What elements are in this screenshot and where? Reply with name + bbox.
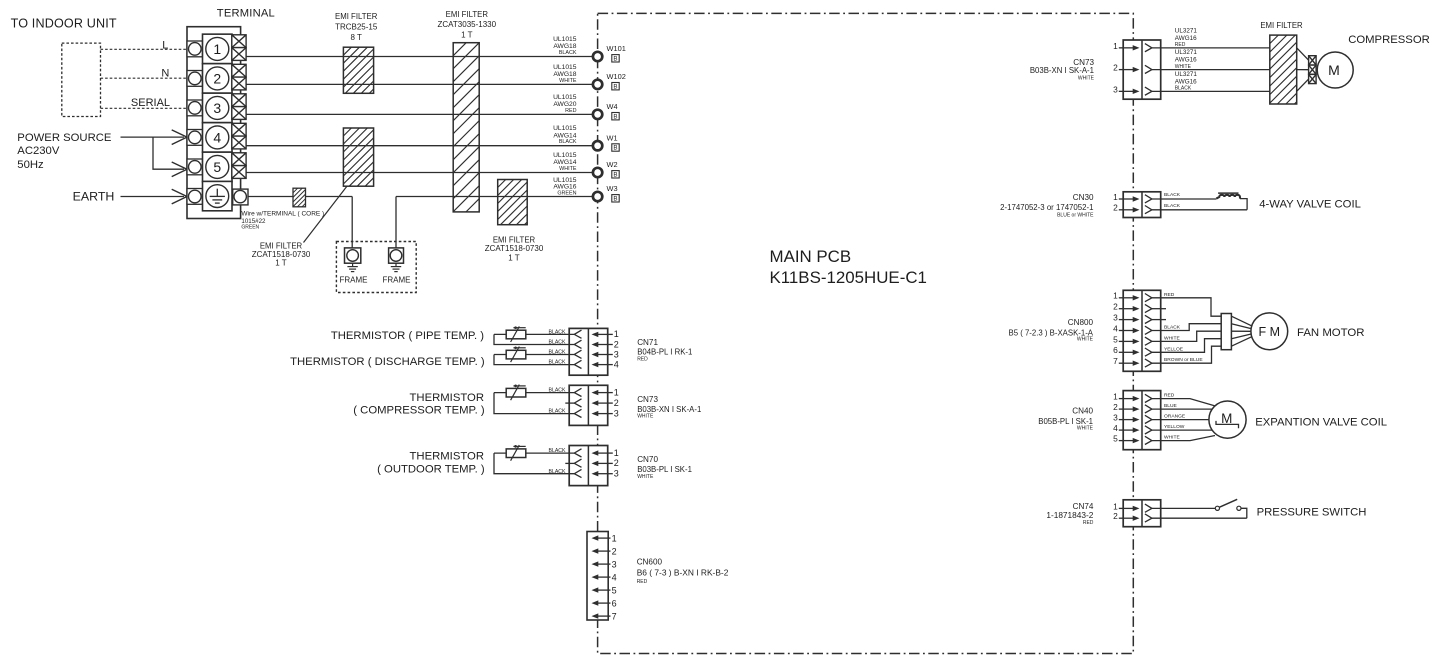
svg-text:3: 3: [614, 408, 619, 418]
wire: CN40 pin 3 to expansion valve (ORANGE): [1152, 414, 1209, 420]
svg-text:UL1015: UL1015: [553, 152, 577, 159]
svg-text:2-1747052-3 or 1747052-1: 2-1747052-3 or 1747052-1: [1000, 203, 1093, 212]
CN800 pin 6: [1113, 345, 1152, 356]
wire: CN40 pin 2 to expansion valve (BLUE): [1152, 403, 1212, 409]
svg-text:W4: W4: [607, 102, 618, 111]
svg-text:ZCAT1518-0730: ZCAT1518-0730: [252, 250, 311, 259]
svg-text:CN73: CN73: [637, 395, 658, 404]
EMI filter ZCAT1518-0730 on earth wire: [498, 180, 528, 225]
svg-text:B: B: [613, 113, 617, 120]
label: CN71 B04B-PL I RK-1 RED: [637, 338, 692, 363]
4-way valve coil L1: [1216, 193, 1240, 199]
CN600 pin 1: [592, 533, 617, 543]
wire: earth lead: [121, 189, 188, 204]
svg-text:B03B-XN I SK-A-1: B03B-XN I SK-A-1: [1030, 66, 1094, 75]
CN73 (thermistor) pin 3: [574, 408, 619, 418]
svg-text:EARTH: EARTH: [73, 189, 115, 203]
fasten terminal W102: [593, 72, 626, 90]
svg-text:FRAME: FRAME: [340, 275, 368, 284]
CN800 pin 4: [1113, 323, 1152, 334]
CN71 pin 4: [574, 359, 619, 369]
svg-text:RED: RED: [1164, 292, 1175, 298]
svg-text:4: 4: [1113, 423, 1118, 433]
svg-text:1-1871843-2: 1-1871843-2: [1046, 510, 1093, 520]
CN600 pin 6: [592, 598, 617, 608]
label: EMI FILTER ZCAT1518-0730 1 T (right): [485, 236, 544, 263]
svg-text:1: 1: [1113, 192, 1118, 202]
svg-text:2: 2: [213, 70, 221, 86]
terminal 3 screw (left): [187, 100, 203, 116]
terminal 1 screw (left): [187, 41, 203, 57]
svg-text:WHITE: WHITE: [1175, 64, 1192, 70]
svg-text:CN800: CN800: [1068, 318, 1094, 327]
terminal 3: [203, 93, 233, 123]
svg-text:2: 2: [1113, 511, 1118, 521]
svg-text:7: 7: [1113, 356, 1118, 366]
svg-text:( COMPRESSOR TEMP. ): ( COMPRESSOR TEMP. ): [353, 405, 485, 417]
wire: terminal 1 to W101: [246, 56, 592, 58]
label: CN30 2-1747052-3 or 1747052-1 BLUE or WHITE: [1000, 193, 1094, 219]
svg-text:AC230V: AC230V: [17, 145, 60, 157]
connector CN73 (thermistor) body: [569, 385, 608, 425]
svg-text:POWER SOURCE: POWER SOURCE: [17, 132, 112, 144]
CN800 pin 3: [1113, 313, 1166, 324]
svg-text:50Hz: 50Hz: [17, 159, 44, 171]
svg-text:4: 4: [213, 129, 221, 145]
svg-text:WHITE: WHITE: [1077, 336, 1094, 342]
EMI filter TRCB25-15 (lower block): [343, 128, 373, 186]
svg-text:2: 2: [1113, 402, 1118, 412]
svg-text:W101: W101: [607, 44, 626, 53]
svg-text:3: 3: [1113, 413, 1118, 423]
svg-text:TRCB25-15: TRCB25-15: [335, 22, 378, 31]
label: FRAME 1: [340, 275, 368, 284]
svg-text:THERMISTOR ( DISCHARGE TEMP. ): THERMISTOR ( DISCHARGE TEMP. ): [290, 356, 485, 368]
label: COMPRESSOR: [1348, 34, 1430, 46]
label: PRESSURE SWITCH: [1257, 506, 1367, 518]
CN74 pin 1: [1113, 501, 1152, 512]
svg-text:3: 3: [1113, 313, 1118, 323]
svg-text:1: 1: [614, 387, 619, 397]
svg-text:5: 5: [1113, 434, 1118, 444]
svg-text:RED: RED: [565, 108, 576, 114]
thermistor (pipe temp.) with wiring to CN71 pins 1-2: [494, 326, 574, 345]
svg-text:Wire w/TERMINAL ( CORE ): Wire w/TERMINAL ( CORE ): [241, 211, 324, 218]
fasten terminal W4: [593, 102, 619, 120]
svg-text:1 T: 1 T: [508, 253, 520, 262]
svg-text:4: 4: [614, 359, 619, 369]
svg-text:BLACK: BLACK: [559, 50, 577, 56]
CN73 (compressor) pin 2: [1113, 63, 1152, 74]
wire: power source to terminal 5: [153, 137, 187, 177]
svg-text:1: 1: [1113, 41, 1118, 51]
wire: CN74 pin 1 to pressure switch: [1152, 507, 1215, 509]
EMI filter TRCB25-15 (upper block): [343, 47, 373, 93]
svg-text:1: 1: [1113, 392, 1118, 402]
CN40 pin 1: [1113, 392, 1152, 403]
svg-text:1 T: 1 T: [275, 259, 287, 268]
svg-text:ZCAT3035-1330: ZCAT3035-1330: [438, 20, 497, 29]
label: THERMISTOR ( OUTDOOR TEMP. ): [377, 451, 485, 476]
label: CN73 B03B-XN I SK-A-1 WHITE: [637, 395, 701, 420]
fasten terminal W2: [593, 160, 619, 178]
wire: terminal 2 to W102: [246, 83, 592, 85]
wire N (dashed) with label: [101, 68, 188, 80]
svg-text:UL3271: UL3271: [1175, 49, 1198, 56]
frame ground enclosure (dashed box): [336, 242, 416, 293]
svg-text:3: 3: [1113, 84, 1118, 94]
label: UL1015 AWG20 RED: [553, 94, 577, 114]
terminal block outline: [187, 27, 241, 219]
svg-text:CN600: CN600: [637, 557, 663, 566]
svg-text:BLACK: BLACK: [548, 448, 566, 454]
thermistor (discharge temp.) with wiring to CN71 pins 3-4: [494, 347, 574, 366]
svg-text:BLACK: BLACK: [548, 360, 566, 366]
svg-text:1 T: 1 T: [461, 31, 473, 40]
svg-text:TERMINAL: TERMINAL: [217, 7, 275, 19]
label: FRAME 2: [383, 275, 411, 284]
svg-text:EMI FILTER: EMI FILTER: [446, 10, 489, 19]
connector CN70 body: [569, 446, 608, 486]
svg-text:RED: RED: [1083, 520, 1094, 526]
wires: EMI filter to compressor cores: [1297, 48, 1309, 92]
CN71 pin 1: [574, 329, 619, 339]
svg-text:WHITE: WHITE: [559, 166, 577, 172]
fasten terminal W101: [593, 44, 626, 62]
wire: frame ground to W3: [396, 197, 592, 248]
svg-text:UL1015: UL1015: [553, 125, 577, 132]
svg-text:FRAME: FRAME: [383, 275, 411, 284]
svg-text:CN40: CN40: [1072, 407, 1093, 416]
svg-text:BLACK: BLACK: [548, 409, 566, 415]
label: FAN MOTOR: [1297, 327, 1365, 339]
terminal 2 screw (left): [187, 71, 203, 87]
svg-text:UL1015: UL1015: [553, 94, 577, 101]
svg-text:UL1015: UL1015: [553, 36, 577, 43]
terminal 2: [203, 64, 233, 94]
svg-text:WHITE: WHITE: [1164, 435, 1180, 441]
ferrite cores on terminal 1: [232, 35, 246, 61]
label: EMI FILTER TRCB25-15 8 T: [335, 12, 378, 42]
svg-text:YELLOE: YELLOE: [1164, 346, 1184, 352]
svg-text:B6 ( 7-3 ) B-XN I RK-B-2: B6 ( 7-3 ) B-XN I RK-B-2: [637, 568, 729, 578]
svg-text:BLUE or WHITE: BLUE or WHITE: [1057, 212, 1094, 218]
svg-text:AWG16: AWG16: [1175, 35, 1197, 42]
svg-text:3: 3: [612, 559, 617, 569]
label: EMI FILTER ZCAT1518-0730 1 T (left, with leader): [252, 186, 347, 268]
label: TO INDOOR UNIT: [11, 17, 117, 31]
CN73 (thermistor) pin 2: [565, 398, 619, 408]
wire: CN800 pin 4 to fan motor (BLACK): [1152, 324, 1221, 331]
EMI filter ZCAT3035-1330 (tall block): [453, 43, 479, 212]
wire L (dashed) with label: [101, 39, 188, 51]
earth terminal: [203, 181, 233, 210]
wire: CN40 pin 4 to expansion valve (YELLOW): [1152, 424, 1212, 430]
svg-text:1: 1: [614, 448, 619, 458]
label: 4-WAY VALVE COIL: [1259, 198, 1361, 210]
compressor motor M1: [1317, 52, 1353, 88]
wire: 4-way valve coil return to CN30 pin 2 (BLACK): [1152, 199, 1247, 210]
CN600 pin 5: [592, 585, 617, 595]
terminal 5 screw (left): [187, 159, 203, 175]
label: EMI FILTER ZCAT3035-1330 1 T: [438, 10, 497, 40]
svg-text:ORANGE: ORANGE: [1164, 414, 1186, 420]
svg-text:CN70: CN70: [637, 455, 658, 464]
CN600 pin 3: [592, 559, 617, 569]
svg-text:3: 3: [213, 100, 221, 116]
CN800 pin 1: [1113, 291, 1152, 302]
svg-text:F M: F M: [1259, 325, 1281, 339]
ferrite cores on terminal 2: [232, 64, 246, 90]
svg-text:5: 5: [1113, 334, 1118, 344]
CN600 pin 4: [592, 572, 617, 582]
wire: CN30 pin 1 to 4-way valve coil (BLACK): [1152, 192, 1216, 199]
svg-text:EMI FILTER: EMI FILTER: [493, 236, 536, 245]
label: EARTH: [73, 189, 115, 203]
wire: CN800 pin 6 to fan motor (YELLOE): [1152, 339, 1221, 353]
terminal 5: [203, 152, 233, 182]
svg-text:EMI FILTER: EMI FILTER: [335, 12, 378, 21]
svg-text:B03B-PL I SK-1: B03B-PL I SK-1: [637, 465, 692, 474]
wire: CN800 pin 1 to fan motor (RED): [1152, 292, 1221, 316]
CN30 pin 1: [1113, 192, 1152, 203]
svg-text:EXPANTION VALVE COIL: EXPANTION VALVE COIL: [1255, 416, 1387, 428]
fan motor lead bundle: [1221, 314, 1231, 350]
svg-text:4-WAY VALVE COIL: 4-WAY VALVE COIL: [1259, 198, 1361, 210]
svg-text:B04B-PL I RK-1: B04B-PL I RK-1: [637, 347, 692, 356]
CN71 pin 3: [574, 349, 619, 359]
svg-text:BLACK: BLACK: [548, 469, 566, 475]
svg-text:L: L: [162, 39, 168, 51]
label: TERMINAL: [217, 7, 275, 19]
svg-text:BLACK: BLACK: [1164, 192, 1181, 198]
svg-text:BLACK: BLACK: [559, 139, 577, 145]
svg-text:ZCAT1518-0730: ZCAT1518-0730: [485, 244, 544, 253]
svg-text:W2: W2: [607, 160, 618, 169]
wire: terminal 4 to W1: [246, 145, 592, 147]
CN800 pin 2: [1113, 302, 1166, 313]
CN70 pin 3: [574, 469, 619, 479]
svg-text:WHITE: WHITE: [1077, 426, 1094, 432]
svg-text:2: 2: [614, 398, 619, 408]
svg-text:WHITE: WHITE: [559, 78, 577, 84]
svg-text:( OUTDOOR TEMP. ): ( OUTDOOR TEMP. ): [377, 464, 485, 476]
CN40 pin 2: [1113, 402, 1152, 413]
indoor unit connection (dashed box): [62, 43, 101, 116]
wire: power source to terminal 4: [121, 130, 188, 145]
svg-text:W102: W102: [607, 72, 626, 81]
CN73 (compressor) pin 1: [1113, 41, 1152, 52]
CN40 pin 4: [1113, 423, 1152, 434]
svg-text:B: B: [613, 195, 617, 202]
svg-text:5: 5: [213, 159, 221, 175]
CN600 pin 7: [592, 611, 617, 621]
svg-text:RED: RED: [637, 579, 648, 585]
label: CN74 1-1871843-2 RED: [1046, 502, 1094, 526]
label: UL1015 AWG14 BLACK: [553, 125, 577, 145]
svg-text:TO INDOOR UNIT: TO INDOOR UNIT: [11, 17, 117, 31]
svg-text:W3: W3: [607, 184, 618, 193]
wires: bundle to fan motor: [1231, 316, 1252, 346]
label: EMI FILTER (compressor): [1260, 21, 1303, 30]
svg-text:MAIN PCB: MAIN PCB: [770, 247, 852, 266]
terminal 1: [203, 34, 233, 64]
svg-text:WHITE: WHITE: [1164, 335, 1180, 341]
CN73 (thermistor) pin 1: [574, 387, 619, 397]
svg-text:YELLOW: YELLOW: [1164, 424, 1185, 430]
label: UL1015 AWG14 WHITE: [553, 152, 577, 172]
thermistor (compressor temp.) with wiring to CN73 pins 1,3: [494, 385, 574, 415]
fasten terminal W3: [593, 184, 619, 202]
svg-text:4: 4: [1113, 323, 1118, 333]
CN30 pin 2: [1113, 203, 1152, 214]
svg-text:M: M: [1221, 411, 1232, 426]
wire: terminal 5 to W2: [246, 172, 592, 174]
svg-text:BLACK: BLACK: [548, 330, 566, 336]
wire: earth terminal to frame ground: [248, 197, 352, 248]
svg-text:BLACK: BLACK: [1164, 203, 1181, 209]
svg-text:3: 3: [614, 469, 619, 479]
svg-text:1: 1: [213, 41, 221, 57]
wire: pressure switch return to CN74 pin 2: [1152, 508, 1247, 518]
svg-text:THERMISTOR: THERMISTOR: [410, 392, 484, 404]
svg-text:WHITE: WHITE: [637, 414, 654, 420]
svg-text:GREEN: GREEN: [557, 190, 576, 196]
svg-text:GREEN: GREEN: [241, 225, 259, 231]
svg-text:EMI FILTER: EMI FILTER: [1260, 21, 1303, 30]
ferrite cores at compressor: [1309, 56, 1317, 84]
svg-text:CN71: CN71: [637, 338, 658, 347]
svg-text:2: 2: [614, 339, 619, 349]
fasten terminal W1: [593, 133, 619, 151]
frame ground 1: [345, 248, 361, 272]
CN70 pin 2: [565, 458, 619, 468]
svg-text:6: 6: [1113, 345, 1118, 355]
svg-text:1: 1: [614, 329, 619, 339]
svg-text:B: B: [613, 55, 617, 62]
CN74 pin 2: [1113, 511, 1152, 522]
svg-text:N: N: [161, 68, 169, 80]
svg-text:5: 5: [612, 585, 617, 595]
wire: CN800 pin 5 to fan motor (WHITE): [1152, 331, 1221, 341]
earth terminal lug (right): [233, 189, 248, 205]
label: Wire w/TERMINAL ( CORE ) 1015#22 GREEN: [241, 211, 324, 231]
wire SERIAL (dashed) with label: [101, 97, 188, 109]
terminal 4: [203, 123, 233, 152]
svg-text:RED: RED: [1164, 393, 1175, 399]
label: EXPANTION VALVE COIL: [1255, 416, 1387, 428]
CN73 (compressor) pin 3: [1113, 84, 1152, 95]
svg-text:CN30: CN30: [1073, 193, 1094, 202]
svg-text:B: B: [613, 83, 617, 90]
svg-text:BLACK: BLACK: [548, 388, 566, 394]
label: THERMISTOR ( PIPE TEMP. ): [331, 330, 484, 342]
fan motor FM: [1251, 313, 1288, 350]
svg-text:PRESSURE SWITCH: PRESSURE SWITCH: [1257, 506, 1367, 518]
CN71 pin 2: [574, 339, 619, 349]
svg-text:3: 3: [614, 349, 619, 359]
svg-text:WHITE: WHITE: [637, 474, 654, 480]
svg-text:7: 7: [612, 611, 617, 621]
svg-text:W1: W1: [607, 133, 618, 142]
connector CN74 body: [1123, 500, 1161, 527]
connector CN30 body: [1123, 192, 1161, 218]
svg-text:UL3271: UL3271: [1175, 71, 1198, 78]
svg-text:THERMISTOR ( PIPE TEMP. ): THERMISTOR ( PIPE TEMP. ): [331, 330, 484, 342]
svg-text:1: 1: [1113, 501, 1118, 511]
EMI filter (compressor): [1270, 35, 1297, 104]
svg-text:RED: RED: [1175, 42, 1186, 48]
connector CN71 body: [569, 328, 608, 375]
terminal 4 screw (left): [187, 130, 203, 146]
svg-text:2: 2: [614, 458, 619, 468]
svg-text:BLUE: BLUE: [1164, 403, 1178, 409]
wire: terminal 3 to W4: [246, 113, 592, 115]
svg-text:FAN MOTOR: FAN MOTOR: [1297, 327, 1365, 339]
CN800 pin 7: [1113, 356, 1152, 367]
wire: CN800 pin 7 to fan motor (BROWN or BLUE): [1152, 346, 1221, 363]
svg-text:RED: RED: [637, 356, 648, 362]
wire: CN73 to compressor EMI filter (BLACK): [1152, 71, 1270, 92]
CN70 pin 1: [574, 448, 619, 458]
MAIN PCB board outline (dash-dot): [598, 13, 1134, 653]
svg-text:4: 4: [612, 572, 617, 582]
connector CN73 (compressor) body: [1123, 40, 1161, 99]
ferrite cores on terminal 3: [232, 94, 246, 120]
label: THERMISTOR ( DISCHARGE TEMP. ): [290, 356, 485, 368]
wire: CN40 pin 1 to expansion valve (RED): [1152, 393, 1215, 406]
wire: CN73 to compressor EMI filter (RED): [1152, 27, 1270, 48]
svg-text:AWG16: AWG16: [1175, 57, 1197, 64]
connector CN800 body: [1123, 290, 1161, 371]
svg-text:AWG16: AWG16: [1175, 78, 1197, 85]
CN600 pin 2: [592, 546, 617, 556]
svg-text:BROWN or BLUE: BROWN or BLUE: [1164, 357, 1203, 363]
thermistor (outdoor temp.) with wiring to CN70 pins 1,3: [494, 445, 574, 475]
svg-text:BLACK: BLACK: [548, 350, 566, 356]
label: MAIN PCB K11BS-1205HUE-C1: [770, 247, 927, 287]
svg-text:UL3271: UL3271: [1175, 27, 1198, 34]
svg-text:B: B: [613, 145, 617, 152]
svg-text:BLACK: BLACK: [548, 340, 566, 346]
wire: CN40 pin 5 to expansion valve (WHITE): [1152, 435, 1215, 441]
label: UL1015 AWG18 BLACK: [553, 36, 577, 56]
label: CN800 B5 ( 7-2.3 ) B-XASK-1-A WHITE: [1009, 318, 1094, 342]
svg-text:SERIAL: SERIAL: [131, 97, 170, 109]
label: UL1015 AWG18 WHITE: [553, 64, 577, 84]
svg-text:BLACK: BLACK: [1164, 325, 1181, 331]
expansion valve coil motor: [1209, 401, 1246, 438]
ferrite cores on terminal 4: [232, 123, 246, 149]
label: THERMISTOR ( COMPRESSOR TEMP. ): [353, 392, 485, 417]
svg-text:M: M: [1328, 62, 1340, 78]
svg-text:1: 1: [612, 533, 617, 543]
svg-text:2: 2: [1113, 63, 1118, 73]
connector CN40 body: [1123, 391, 1161, 450]
svg-text:WHITE: WHITE: [1078, 76, 1095, 82]
pressure switch S1: [1215, 499, 1241, 510]
svg-text:K11BS-1205HUE-C1: K11BS-1205HUE-C1: [770, 268, 927, 287]
connector CN600 body: [587, 532, 608, 621]
label: CN40 B05B-PL I SK-1 WHITE: [1038, 407, 1093, 432]
svg-text:B03B-XN I SK-A-1: B03B-XN I SK-A-1: [637, 405, 701, 414]
svg-text:8 T: 8 T: [350, 33, 362, 42]
frame ground 2: [389, 248, 404, 272]
label: CN73 B03B-XN I SK-A-1 WHITE (right): [1030, 58, 1095, 82]
label: POWER SOURCE AC230V 50Hz: [17, 132, 112, 171]
label: CN600 B6 ( 7-3 ) B-XN I RK-B-2 RED: [637, 557, 729, 585]
earth terminal screw (left): [187, 189, 203, 205]
